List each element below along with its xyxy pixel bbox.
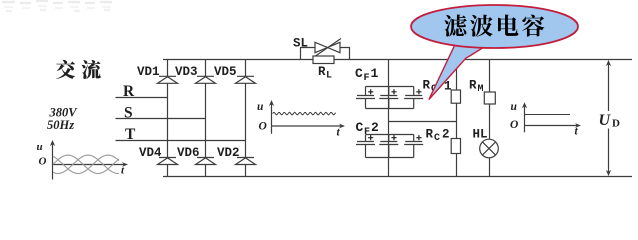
- wire capacitor midpoint to RC midpoint: [389, 121, 457, 123]
- svg-text:T: T: [125, 126, 136, 143]
- svg-text:S: S: [124, 105, 133, 122]
- svg-text:M: M: [478, 84, 484, 95]
- ripple (filtered DC) trace: [273, 112, 336, 115]
- rectified waveform graph axes (u,O,t): [272, 103, 343, 133]
- diode VD2: [237, 157, 254, 159]
- diode VD6: [197, 157, 214, 159]
- svg-text:R: R: [123, 83, 135, 100]
- svg-text:t: t: [337, 127, 341, 139]
- svg-text:VD3: VD3: [175, 65, 198, 79]
- svg-text:R: R: [426, 128, 434, 142]
- svg-text:VD1: VD1: [137, 65, 160, 79]
- faint cropped header text artifact: [2, 1, 112, 11]
- svg-text:C: C: [434, 133, 440, 144]
- resistor RC1: [451, 90, 460, 103]
- resistor RL: [313, 56, 334, 64]
- svg-text:R: R: [318, 65, 326, 79]
- svg-text:VD5: VD5: [214, 65, 237, 79]
- bridge column wire x=245.5: [245, 60, 247, 177]
- svg-text:SL: SL: [293, 37, 308, 51]
- phase line S: [116, 118, 206, 120]
- resistor RM: [484, 92, 495, 104]
- wire SL bypass right: [340, 48, 350, 60]
- wire SL bypass left: [301, 48, 316, 60]
- callout balloon tail: [429, 38, 497, 99]
- svg-text:O: O: [39, 156, 47, 168]
- svg-text:50Hz: 50Hz: [47, 118, 74, 132]
- RM-HL branch wire: [489, 60, 491, 177]
- svg-text:VD4: VD4: [139, 146, 162, 160]
- svg-text:1: 1: [371, 66, 379, 81]
- phase line R: [116, 97, 168, 99]
- UD output voltage double arrow: [608, 63, 610, 174]
- diode VD3: [197, 75, 214, 77]
- callout balloon 滤波电容 (filter capacitor): [411, 5, 578, 48]
- svg-text:C: C: [356, 120, 364, 135]
- diode VD5: [237, 75, 254, 77]
- svg-text:t: t: [575, 126, 579, 138]
- bottom bus wire (-): [163, 176, 632, 178]
- capacitor bank CF1: [366, 86, 414, 88]
- svg-text:F: F: [364, 127, 370, 138]
- svg-text:O: O: [510, 119, 518, 131]
- svg-text:F: F: [364, 73, 370, 84]
- top bus wire (+): [163, 59, 632, 61]
- capacitor bank CF2: [366, 134, 414, 136]
- switch SL: [314, 39, 341, 58]
- svg-text:u: u: [257, 101, 264, 113]
- svg-text:VD6: VD6: [177, 146, 200, 160]
- svg-text:HL: HL: [473, 128, 488, 142]
- diode VD4: [159, 157, 176, 159]
- output DC graph axes (u,O,t): [525, 106, 579, 133]
- svg-text:2: 2: [371, 120, 379, 135]
- svg-text:t: t: [121, 165, 125, 177]
- bridge column wire x=205.5: [205, 60, 207, 177]
- svg-text:C: C: [355, 66, 363, 81]
- svg-text:u: u: [511, 101, 518, 113]
- svg-text:L: L: [326, 71, 332, 82]
- svg-text:R: R: [423, 79, 431, 93]
- three-phase sine waves: [53, 155, 119, 173]
- svg-text:O: O: [259, 121, 267, 133]
- svg-text:VD2: VD2: [217, 146, 240, 160]
- svg-text:u: u: [37, 141, 43, 153]
- DC level trace: [525, 114, 571, 116]
- svg-text:R: R: [469, 79, 477, 93]
- bridge column wire x=167.5: [167, 60, 169, 177]
- svg-text:2: 2: [442, 128, 450, 142]
- label 交流 (AC): [56, 60, 75, 79]
- capacitor branch wire: [388, 60, 390, 177]
- input waveform graph axes (u,O,t): [53, 144, 126, 180]
- phase line T: [116, 140, 246, 142]
- svg-text:D: D: [612, 118, 620, 130]
- RC branch wire: [456, 60, 458, 177]
- diode VD1: [159, 75, 176, 77]
- resistor RC2: [451, 139, 460, 154]
- lamp HL: [480, 139, 499, 158]
- svg-text:U: U: [599, 112, 612, 129]
